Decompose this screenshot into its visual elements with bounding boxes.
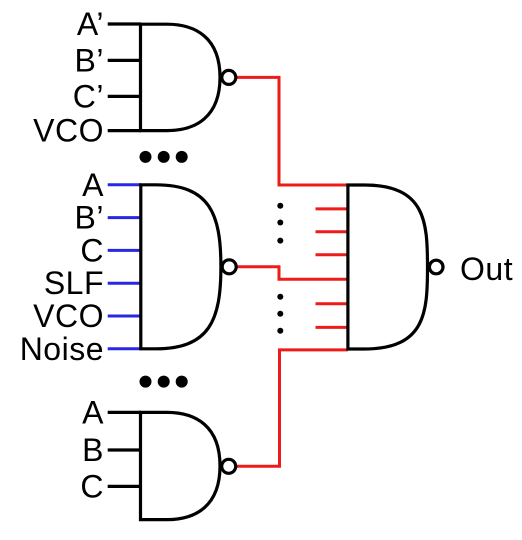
wire U3 output to U4 input 8 (red)	[231, 350, 348, 466]
nand gate U1 (top, 4-input NAND)	[141, 24, 236, 130]
U4 input stub 2 (red)	[316, 207, 350, 210]
nand gate U3 (bottom, 3-input NAND)	[141, 412, 236, 519]
ellipsis dots (more gates below middle)	[140, 376, 188, 388]
wire B' to U1	[108, 59, 141, 62]
wire C to U3	[108, 485, 141, 488]
svg-text:C’: C’	[73, 78, 104, 114]
wire C' to U1	[108, 95, 141, 98]
svg-text:Out: Out	[460, 251, 513, 287]
svg-text:A’: A’	[77, 6, 104, 42]
wire U1 output to U4 input 1 (red)	[231, 77, 348, 185]
svg-text:C: C	[80, 468, 104, 504]
vertical ellipsis dots (more U4 inputs, upper group)	[277, 203, 283, 244]
svg-text:C: C	[80, 232, 104, 268]
svg-text:B: B	[82, 432, 104, 468]
svg-text:A: A	[82, 394, 104, 430]
U4 input stub 4 (red)	[316, 253, 350, 256]
wire Noise to U2 (blue)	[108, 347, 141, 350]
wire VCO to U2 (blue)	[108, 315, 141, 318]
wire C to U2 (blue)	[108, 249, 141, 252]
U4 input stub 6 (red)	[316, 302, 350, 305]
U4 input stub 3 (red)	[316, 230, 350, 233]
svg-text:B’: B’	[75, 200, 104, 236]
nand gate U4 (output, 8-input NAND)	[348, 185, 443, 349]
wire A to U2 (blue)	[108, 183, 141, 186]
svg-text:SLF: SLF	[44, 265, 104, 301]
ellipsis dots (more gates above middle)	[140, 151, 188, 163]
vertical ellipsis dots (more U4 inputs, lower group)	[277, 294, 283, 334]
svg-text:A: A	[82, 167, 104, 203]
wire A' to U1	[108, 22, 141, 25]
wire A to U3	[108, 411, 141, 414]
wire U2 output to U4 input 5 (red)	[231, 267, 348, 280]
wire B' to U2 (blue)	[108, 216, 141, 219]
svg-text:VCO: VCO	[33, 113, 104, 149]
wire SLF to U2 (blue)	[108, 282, 141, 285]
svg-text:B’: B’	[75, 42, 104, 78]
U4 input stub 7 (red)	[316, 326, 350, 329]
wire B to U3	[108, 448, 141, 451]
nand gate U2 (middle, 6-input NAND)	[141, 185, 236, 349]
svg-text:Noise: Noise	[20, 331, 104, 367]
wire VCO to U1	[108, 129, 141, 132]
svg-text:VCO: VCO	[33, 298, 104, 334]
